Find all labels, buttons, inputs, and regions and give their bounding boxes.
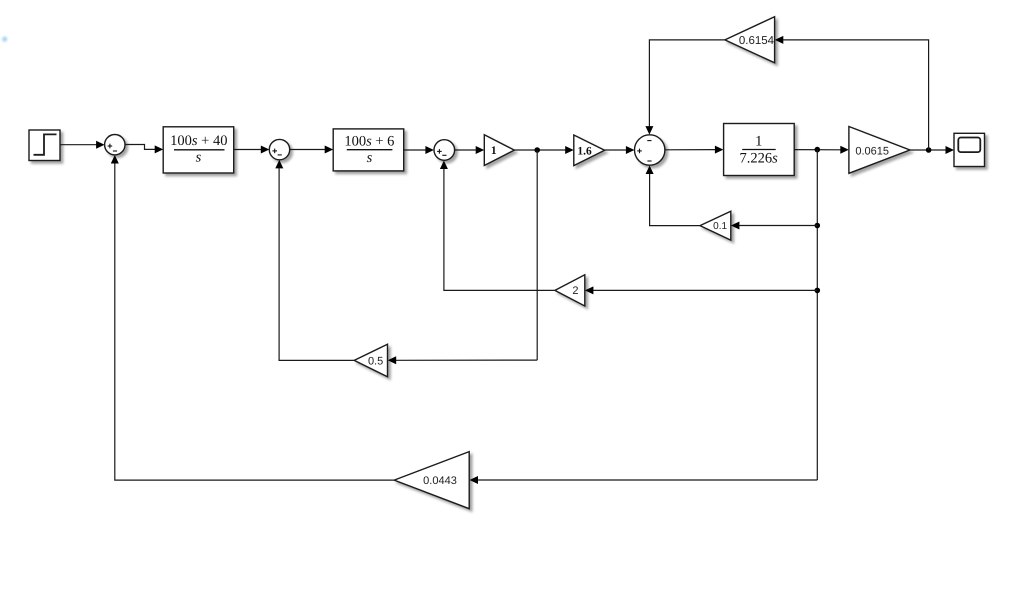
wire to gain 2 <box>585 286 817 294</box>
svg-text:0.6154: 0.6154 <box>739 35 775 47</box>
svg-text:0.1: 0.1 <box>713 221 727 232</box>
svg-text:s: s <box>367 150 373 166</box>
svg-text:0.0615: 0.0615 <box>855 146 889 158</box>
wire TF1 to sum2 <box>234 146 269 154</box>
svg-text:1.6: 1.6 <box>577 145 592 157</box>
wire to gain 0.5 <box>388 356 538 364</box>
sum junction S4 <box>635 135 665 165</box>
wire sum3 to gain1 <box>455 146 485 154</box>
sum junction S1 <box>105 135 125 155</box>
TF block 100s+40 over s <box>163 127 234 173</box>
gain block 0.0615 <box>849 127 910 174</box>
svg-text:1: 1 <box>491 145 497 157</box>
gain block 0.1 (left pointing) <box>700 211 731 240</box>
wire TF2 to sum3 <box>404 146 434 154</box>
gain block 1.6 <box>574 135 605 166</box>
gain block 0.5 (left pointing) <box>354 344 387 377</box>
wire sum1 to TF1 (jog) <box>125 145 163 154</box>
sum junction S3 <box>434 140 455 161</box>
wire gain 0.5 to sum2 bottom <box>275 160 354 361</box>
wire gain 0.0443 to sum1 bottom <box>111 155 394 480</box>
wire gain 2 to sum3 bottom <box>440 161 555 291</box>
wire right side to gain 0.0443 <box>470 476 818 484</box>
step source block <box>29 130 60 161</box>
svg-text:0.5: 0.5 <box>368 355 383 367</box>
TF block 100s+6 over s <box>333 129 404 171</box>
svg-text:2: 2 <box>572 285 578 297</box>
svg-text:7.226s: 7.226s <box>740 150 779 166</box>
gain block 0.6154 (left pointing) <box>725 17 775 63</box>
svg-text:0.0443: 0.0443 <box>423 475 457 487</box>
wire right-side vertical from output junction down <box>815 150 821 480</box>
scope block <box>954 133 985 166</box>
wire gain 0.0615 to scope with junction <box>910 146 954 154</box>
wire sum2 to TF2 <box>290 146 333 154</box>
wire step to sum1 <box>60 141 104 149</box>
gain block 2 (left pointing) <box>555 275 585 306</box>
svg-text:100s + 6: 100s + 6 <box>344 133 394 149</box>
wire TF3 to gain 0.0615 with junction <box>794 146 848 154</box>
wire output up to gain 0.6154 <box>775 36 929 150</box>
sum junction S2 <box>269 139 289 159</box>
wire gain1 to gain1.6 with junction <box>514 146 573 154</box>
svg-text:s: s <box>196 150 202 166</box>
svg-text:1: 1 <box>755 134 762 150</box>
artifact blue dot <box>2 37 7 42</box>
wire gain 0.1 to sum4 bottom <box>646 166 700 226</box>
wire sum4 to TF3 <box>665 146 723 154</box>
gain block 0.0443 (left pointing) <box>394 452 469 509</box>
svg-text:100s + 40: 100s + 40 <box>170 133 227 149</box>
gain block 1 <box>484 135 514 166</box>
wire gain 0.6154 to sum4 top <box>645 40 725 135</box>
wire junction after gain1 down <box>536 150 538 360</box>
wire gain1.6 to sum4 <box>605 146 635 154</box>
wire to gain 0.1 <box>731 222 817 230</box>
TF block 1 over 7.226s <box>724 124 795 176</box>
